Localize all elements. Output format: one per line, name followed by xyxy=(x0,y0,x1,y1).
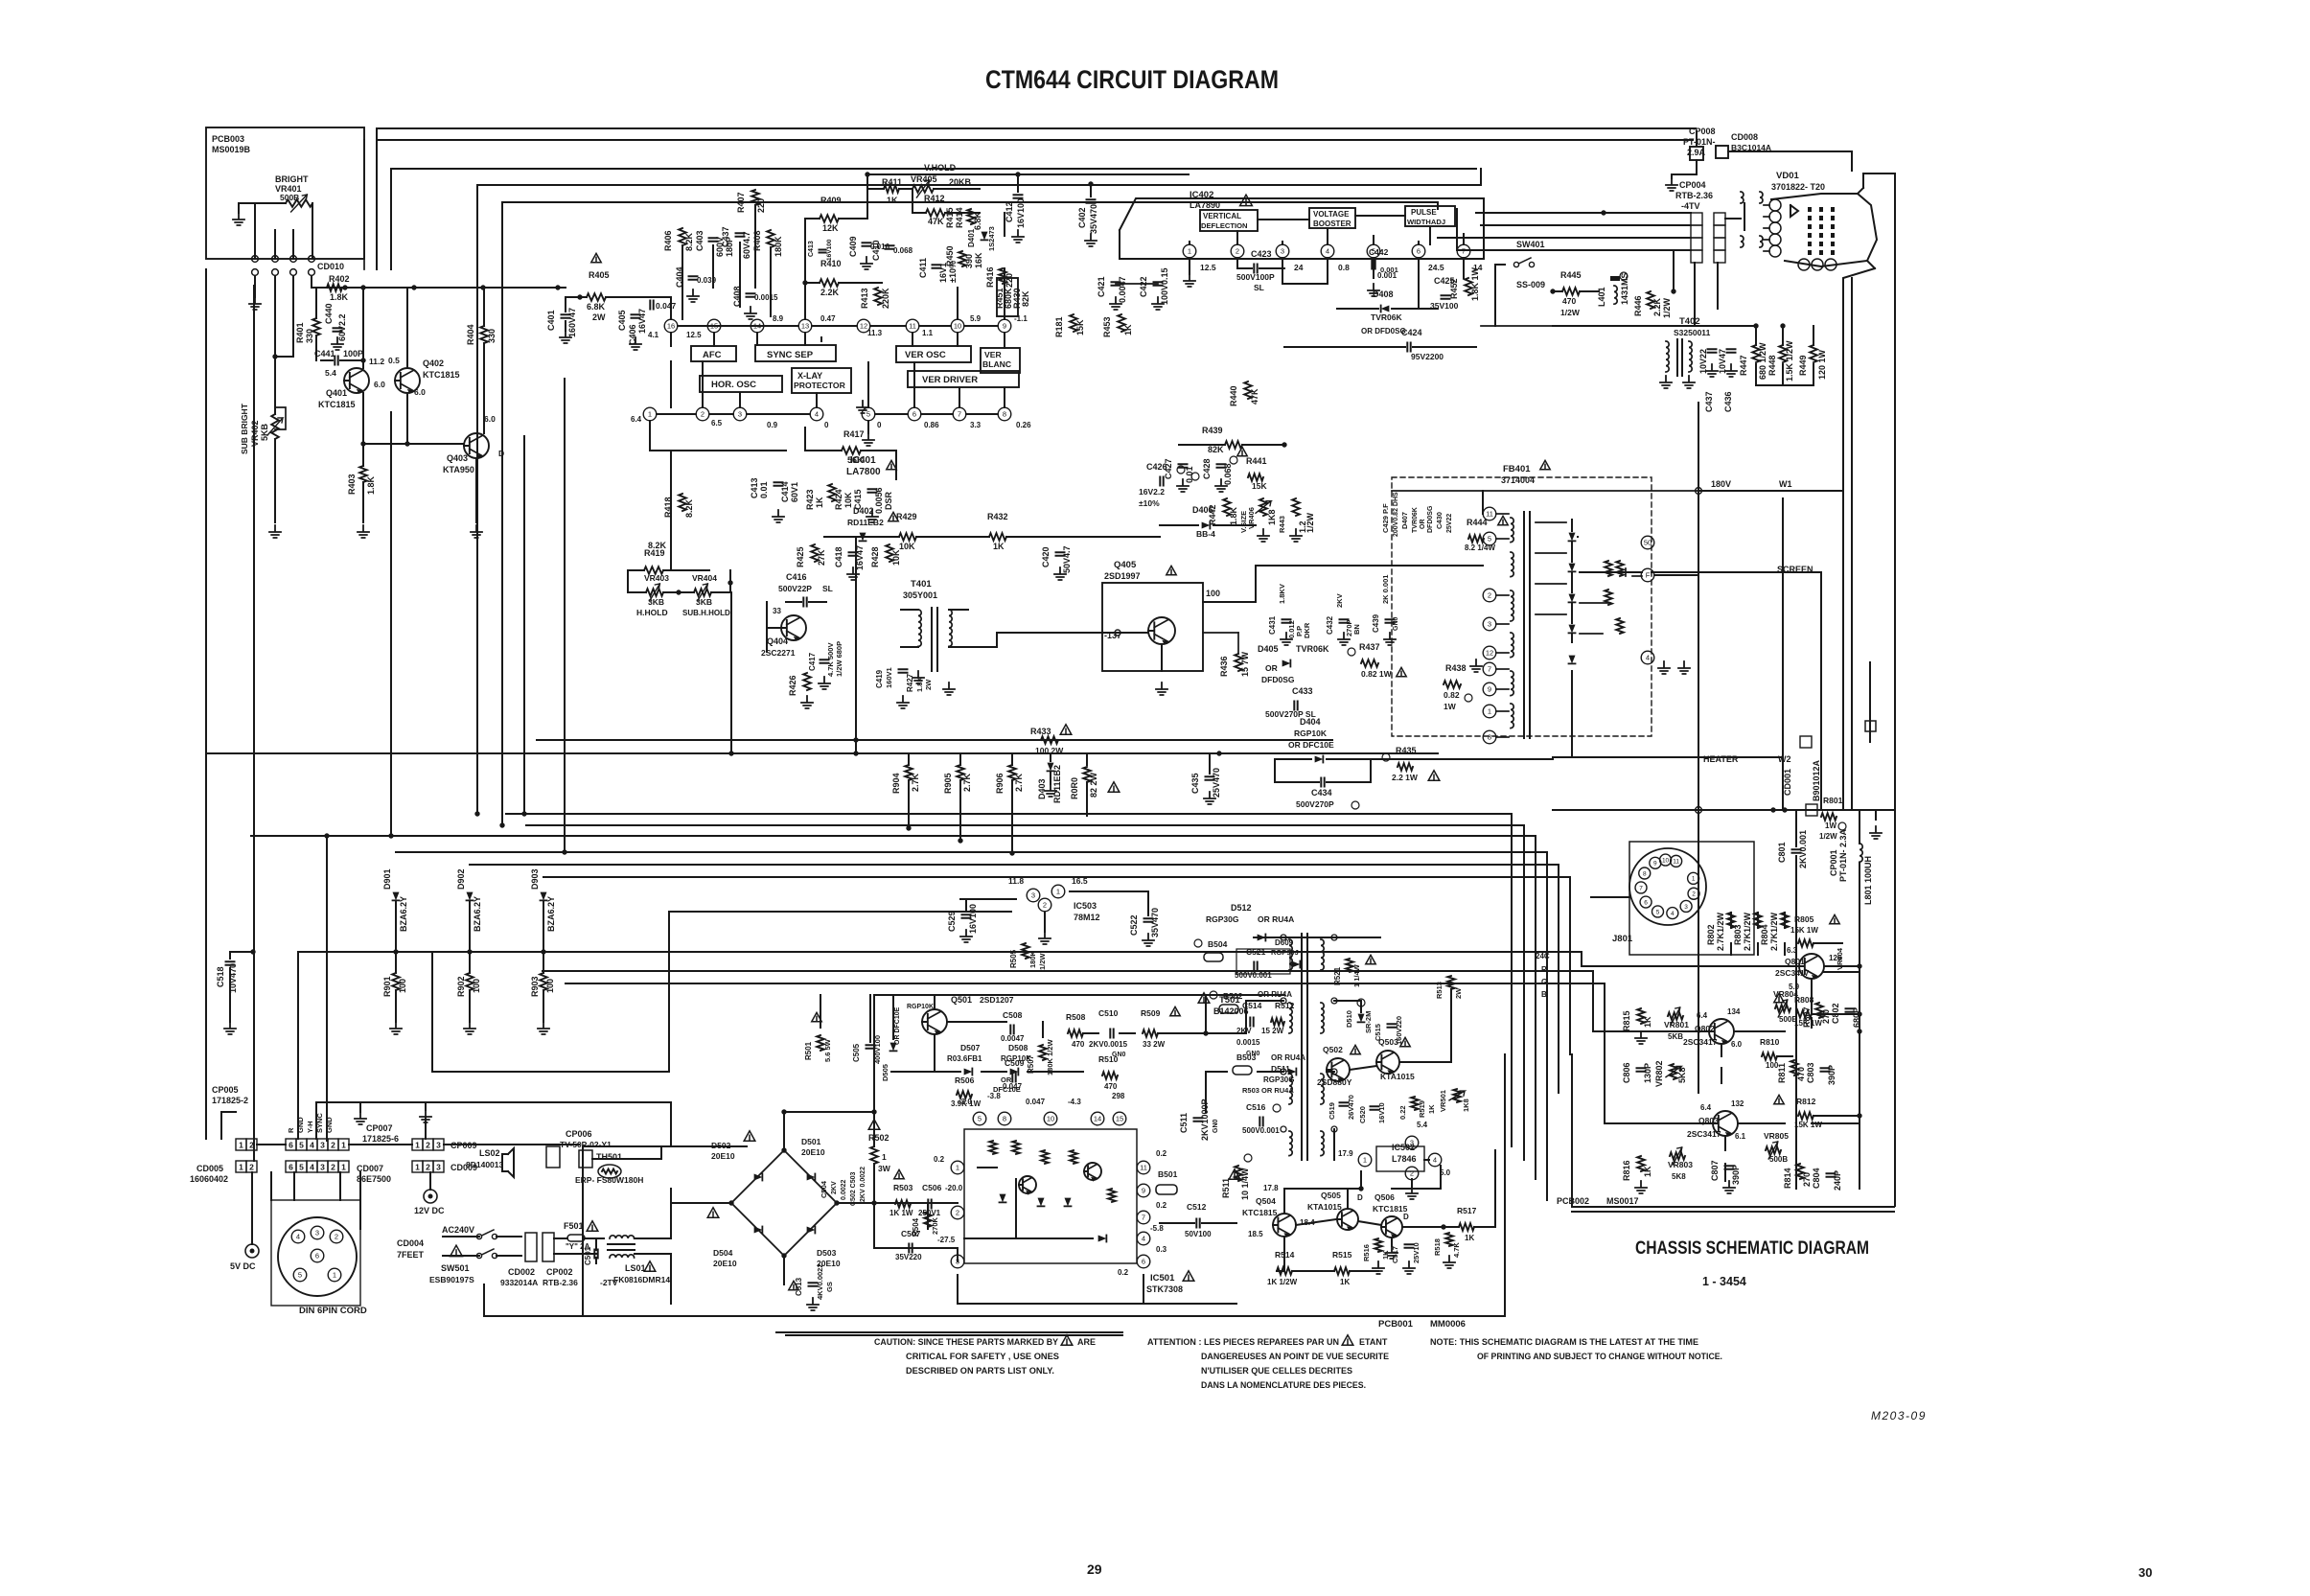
svg-text:10K: 10K xyxy=(899,542,915,551)
svg-text:4.1: 4.1 xyxy=(648,331,659,339)
svg-text:2: 2 xyxy=(1488,591,1491,600)
svg-text:C418: C418 xyxy=(834,546,843,567)
svg-text:L401: L401 xyxy=(1597,287,1606,307)
svg-text:56K: 56K xyxy=(847,455,864,465)
svg-text:2.2K: 2.2K xyxy=(820,288,840,297)
svg-text:R503: R503 xyxy=(893,1183,913,1192)
svg-text:0.01: 0.01 xyxy=(759,481,769,498)
svg-text:3: 3 xyxy=(436,1140,441,1149)
capacitor C435 xyxy=(1190,753,1221,804)
svg-text:C801: C801 xyxy=(1777,842,1787,863)
svg-text:9: 9 xyxy=(1488,685,1491,694)
svg-text:18.5: 18.5 xyxy=(1248,1230,1263,1238)
svg-text:1K: 1K xyxy=(1643,1166,1652,1177)
svg-text:6.8K: 6.8K xyxy=(587,302,606,312)
wire cp004 feeds xyxy=(1438,209,1691,250)
svg-text:3: 3 xyxy=(320,1140,325,1149)
resistor R815 xyxy=(1622,1008,1652,1044)
wire video R line xyxy=(474,952,1799,966)
svg-text:R814: R814 xyxy=(1783,1168,1792,1189)
svg-text:0.2: 0.2 xyxy=(1118,1268,1129,1277)
svg-text:2: 2 xyxy=(426,1140,430,1149)
svg-text:2SD1207: 2SD1207 xyxy=(980,995,1014,1005)
svg-text:R443: R443 xyxy=(1278,516,1286,533)
svg-text:R519: R519 xyxy=(1418,1100,1426,1118)
svg-text:R441: R441 xyxy=(1246,456,1267,466)
capacitor C417 xyxy=(808,641,843,677)
switch SW501a xyxy=(476,1230,497,1239)
resistor R453 xyxy=(1102,314,1133,337)
svg-text:RGP10K: RGP10K xyxy=(1294,729,1328,738)
svg-text:0.47: 0.47 xyxy=(820,314,836,323)
svg-text:180K: 180K xyxy=(774,236,783,257)
svg-text:2K 0.001: 2K 0.001 xyxy=(1381,575,1390,604)
svg-text:BLANC: BLANC xyxy=(982,359,1011,369)
resistor R437 xyxy=(1348,642,1406,679)
svg-text:C439: C439 xyxy=(1372,613,1380,633)
svg-text:Q803: Q803 xyxy=(1698,1116,1719,1125)
svg-text:16V10: 16V10 xyxy=(1377,1102,1386,1123)
svg-text:D402: D402 xyxy=(853,506,874,516)
resistor R521 xyxy=(1333,955,1375,1006)
svg-text:OR DFC10E: OR DFC10E xyxy=(894,1006,901,1045)
svg-text:1.8K: 1.8K xyxy=(366,475,376,495)
svg-text:R401: R401 xyxy=(295,322,305,343)
svg-text:6.4: 6.4 xyxy=(631,415,642,424)
svg-text:500V270P: 500V270P xyxy=(1296,799,1334,809)
line filter L501 xyxy=(608,1236,670,1284)
wire q504 chain xyxy=(1277,1189,1459,1271)
svg-text:2: 2 xyxy=(1410,1169,1414,1178)
svg-text:C403: C403 xyxy=(695,230,705,251)
svg-text:Q506: Q506 xyxy=(1374,1192,1395,1202)
svg-text:R435: R435 xyxy=(1396,746,1417,755)
svg-text:10K: 10K xyxy=(891,549,901,566)
svg-text:8.2K: 8.2K xyxy=(684,232,694,251)
board PCB003 outline xyxy=(206,127,364,259)
svg-text:6.0: 6.0 xyxy=(374,380,385,389)
resistor R511 xyxy=(1221,1154,1252,1200)
resistor R442 VR406 R443 xyxy=(1208,498,1315,542)
coil L401 xyxy=(1597,272,1629,307)
label IC401 LA7800 xyxy=(846,455,896,477)
svg-text:D404: D404 xyxy=(1300,717,1321,727)
title CTM644 CIRCUIT DIAGRAM xyxy=(985,65,1279,94)
label CD005 xyxy=(190,1164,228,1184)
svg-text:T401: T401 xyxy=(911,579,932,590)
capacitor C801 xyxy=(1777,810,1808,882)
svg-text:STK7308: STK7308 xyxy=(1146,1284,1183,1294)
svg-text:50V4.7: 50V4.7 xyxy=(1062,545,1072,573)
resistor R441 xyxy=(1237,447,1268,491)
svg-text:SUB.H.HOLD: SUB.H.HOLD xyxy=(682,609,730,617)
wire video G line xyxy=(543,971,1709,1031)
svg-text:R804: R804 xyxy=(1760,924,1769,945)
svg-text:TH501: TH501 xyxy=(596,1152,622,1162)
svg-text:17.8: 17.8 xyxy=(1263,1184,1279,1192)
svg-text:1.8K: 1.8K xyxy=(330,292,349,302)
svg-text:RTB-2.36: RTB-2.36 xyxy=(1675,191,1713,200)
svg-text:CD004: CD004 xyxy=(397,1238,424,1248)
svg-text:C414: C414 xyxy=(780,481,790,502)
wire ic401 pins9-10 up xyxy=(958,213,1005,319)
wire vr403 row xyxy=(628,570,733,595)
capacitor C411 xyxy=(918,258,958,283)
svg-text:1: 1 xyxy=(1488,707,1491,716)
svg-text:330: 330 xyxy=(487,329,497,343)
resistor R425 xyxy=(796,544,826,567)
wire pcb001 borders xyxy=(484,1054,1505,1335)
svg-text:95V2200: 95V2200 xyxy=(1411,352,1444,361)
svg-text:DFD0SG: DFD0SG xyxy=(1427,505,1434,533)
resistor R810 xyxy=(1760,1037,1780,1070)
svg-text:180K 1/2W: 180K 1/2W xyxy=(1046,1039,1054,1076)
svg-text:R406: R406 xyxy=(663,230,673,251)
svg-text:R810: R810 xyxy=(1760,1037,1780,1047)
wire screen bus xyxy=(1652,572,1821,810)
transistor Q506 xyxy=(1373,1192,1409,1238)
wire t402 area xyxy=(1553,323,1813,385)
resistor R503 xyxy=(889,1169,913,1217)
svg-text:R515: R515 xyxy=(1332,1250,1352,1260)
svg-text:D508: D508 xyxy=(1008,1043,1028,1052)
signal labels vertical xyxy=(287,1113,334,1133)
svg-text:C506: C506 xyxy=(922,1183,942,1192)
svg-text:PULSE: PULSE xyxy=(1411,208,1437,217)
transformer T401 xyxy=(901,579,997,671)
svg-text:C429 P.F: C429 P.F xyxy=(1381,503,1390,533)
svg-text:298: 298 xyxy=(1112,1092,1125,1100)
svg-text:-3.8: -3.8 xyxy=(987,1092,1001,1100)
svg-text:2.7K1/2W: 2.7K1/2W xyxy=(1716,912,1725,951)
svg-text:KTC1815: KTC1815 xyxy=(318,400,356,409)
svg-text:1K: 1K xyxy=(1643,1016,1652,1028)
svg-text:CP006: CP006 xyxy=(566,1129,592,1139)
svg-text:270: 270 xyxy=(1821,1009,1831,1024)
svg-text:4.7K: 4.7K xyxy=(1452,1242,1461,1258)
svg-text:1: 1 xyxy=(239,1162,243,1171)
svg-text:-4TV: -4TV xyxy=(1681,201,1700,211)
svg-text:270K: 270K xyxy=(931,1216,939,1235)
labels 24C R G B xyxy=(1536,952,1550,999)
flyback pin stubs xyxy=(1496,514,1509,737)
svg-text:R407: R407 xyxy=(736,192,746,213)
svg-text:IC501: IC501 xyxy=(1150,1273,1175,1284)
svg-text:VR501: VR501 xyxy=(1439,1090,1447,1112)
svg-text:L7846: L7846 xyxy=(1392,1154,1417,1164)
svg-text:D507: D507 xyxy=(960,1043,981,1052)
svg-text:1: 1 xyxy=(415,1140,420,1149)
svg-text:4.7K 500V: 4.7K 500V xyxy=(826,643,835,677)
caps C806 C808 VR802 xyxy=(1622,1060,1687,1087)
svg-text:H.HOLD: H.HOLD xyxy=(636,608,668,617)
svg-text:R449: R449 xyxy=(1798,355,1808,376)
svg-text:C419: C419 xyxy=(875,669,884,688)
svg-text:R445: R445 xyxy=(1560,270,1582,280)
label CP005 xyxy=(212,1085,248,1105)
wire left mid vertical x589 xyxy=(562,379,566,855)
svg-text:1/2W: 1/2W xyxy=(1662,297,1672,318)
svg-text:27K: 27K xyxy=(817,549,826,566)
page number 29 xyxy=(1087,1561,1102,1577)
svg-text:6.0: 6.0 xyxy=(484,414,496,424)
svg-text:50V100: 50V100 xyxy=(1185,1230,1212,1238)
wire bus F xyxy=(543,877,1570,1054)
svg-text:Q802: Q802 xyxy=(1695,1024,1715,1033)
svg-text:R901: R901 xyxy=(382,976,392,997)
svg-text:2SD1997: 2SD1997 xyxy=(1104,571,1141,581)
svg-text:500V100P: 500V100P xyxy=(1236,272,1275,282)
wire q405 collector to flyback xyxy=(1256,566,1483,602)
svg-text:1.5K 1/2W: 1.5K 1/2W xyxy=(1785,340,1794,382)
svg-text:D501: D501 xyxy=(801,1137,821,1146)
drawing number 1-3454 xyxy=(1702,1275,1746,1288)
svg-text:D405: D405 xyxy=(1258,644,1279,654)
flyback secondary resistors xyxy=(1605,561,1624,634)
svg-text:10: 10 xyxy=(1662,857,1670,864)
resistors R451 R430 xyxy=(995,278,1030,316)
svg-text:15K: 15K xyxy=(1075,319,1085,335)
svg-text:171825-2: 171825-2 xyxy=(212,1096,248,1105)
svg-text:82K: 82K xyxy=(1208,445,1224,454)
label PCB002 xyxy=(1557,1196,1639,1206)
svg-text:0.3: 0.3 xyxy=(1156,1245,1167,1254)
svg-text:C417: C417 xyxy=(808,652,817,671)
wire right vertical outer xyxy=(1863,173,1895,1206)
svg-text:10: 10 xyxy=(954,322,961,331)
svg-text:C505: C505 xyxy=(852,1043,861,1062)
transistor Q405 box xyxy=(997,560,1256,695)
capacitor C437 R408 xyxy=(721,226,783,259)
svg-text:10V22: 10V22 xyxy=(1698,349,1708,374)
svg-text:5: 5 xyxy=(298,1271,302,1280)
svg-text:R437: R437 xyxy=(1359,642,1380,652)
capacitor C413 xyxy=(808,239,833,261)
capacitor C426 xyxy=(1139,462,1185,508)
svg-text:6: 6 xyxy=(1644,899,1648,906)
capacitor C424 xyxy=(1284,328,1476,361)
wire right vertical crt-right xyxy=(1851,278,1853,810)
ground PCB003 xyxy=(233,203,244,225)
svg-text:0.82: 0.82 xyxy=(1444,690,1460,700)
svg-text:Q403: Q403 xyxy=(447,453,468,463)
svg-text:CTM644 CIRCUIT DIAGRAM: CTM644 CIRCUIT DIAGRAM xyxy=(985,65,1279,94)
svg-text:D408: D408 xyxy=(1373,289,1394,299)
svg-text:15K 1W: 15K 1W xyxy=(1794,1019,1822,1028)
svg-text:5.9: 5.9 xyxy=(970,314,982,323)
svg-text:R801: R801 xyxy=(1823,796,1843,805)
diode D408 xyxy=(1337,289,1438,335)
svg-text:1.8K: 1.8K xyxy=(1229,506,1238,525)
svg-text:C423: C423 xyxy=(1251,249,1272,259)
svg-text:C422: C422 xyxy=(1139,276,1148,297)
jack 5V DC xyxy=(230,1172,259,1271)
svg-text:1: 1 xyxy=(341,1140,346,1149)
ground cp009 xyxy=(420,1102,431,1139)
svg-text:6.4: 6.4 xyxy=(1700,1103,1712,1112)
resistor R816 VR803 C807 xyxy=(1622,1147,1741,1193)
svg-text:C413: C413 xyxy=(808,241,815,257)
svg-text:C433: C433 xyxy=(1292,686,1313,696)
wire flyback to screen xyxy=(1580,572,1698,575)
svg-text:0.0047: 0.0047 xyxy=(1001,1034,1025,1043)
svg-text:R906: R906 xyxy=(995,773,1005,794)
svg-text:2.7K1/2W: 2.7K1/2W xyxy=(1769,912,1779,951)
svg-text:470: 470 xyxy=(1104,1082,1118,1091)
pot VR501 xyxy=(1439,1089,1470,1112)
svg-text:SCREEN: SCREEN xyxy=(1777,565,1813,574)
svg-text:Q404: Q404 xyxy=(767,636,788,646)
svg-text:1: 1 xyxy=(341,1162,346,1171)
svg-text:2: 2 xyxy=(701,410,705,419)
resistor R502 xyxy=(868,1112,891,1203)
svg-text:3.3: 3.3 xyxy=(970,421,982,429)
capacitor C515 xyxy=(1374,1016,1403,1045)
svg-text:CP008: CP008 xyxy=(1689,127,1716,136)
svg-text:390P: 390P xyxy=(1731,1165,1741,1185)
svg-text:R414: R414 xyxy=(955,207,964,228)
svg-text:1: 1 xyxy=(1363,1156,1367,1165)
svg-text:R446: R446 xyxy=(1633,295,1643,316)
svg-text:10: 10 xyxy=(1047,1115,1054,1123)
label BRIGHT VR401 xyxy=(275,174,309,202)
capacitor C513 xyxy=(789,1263,834,1310)
svg-text:C416: C416 xyxy=(786,572,807,582)
wire d90x feed xyxy=(298,952,543,1139)
svg-text:C501: C501 xyxy=(584,1246,592,1265)
wire bus B xyxy=(526,825,1524,1160)
resistor R504 xyxy=(912,1212,939,1237)
svg-text:CP005: CP005 xyxy=(212,1085,239,1095)
capacitor C408 xyxy=(732,286,778,319)
jack 12V DC xyxy=(414,1172,445,1215)
svg-text:4: 4 xyxy=(1646,654,1650,662)
ballast B503 xyxy=(1233,1052,1305,1075)
capacitor C432 xyxy=(1326,593,1361,645)
svg-text:220: 220 xyxy=(756,198,766,213)
svg-text:C412: C412 xyxy=(1005,201,1014,222)
pot VR801 xyxy=(1664,1007,1689,1041)
IC501 inner parts xyxy=(964,1141,1116,1242)
svg-text:VR402: VR402 xyxy=(250,420,260,447)
svg-text:0.86: 0.86 xyxy=(924,421,939,429)
wire snubber rail xyxy=(871,1200,958,1261)
svg-text:11: 11 xyxy=(1140,1164,1147,1172)
svg-text:-4.3: -4.3 xyxy=(1068,1098,1081,1106)
svg-text:33: 33 xyxy=(773,607,781,615)
svg-text:2: 2 xyxy=(249,1162,254,1171)
wire flyback heater xyxy=(1572,671,1698,757)
switch SW401 xyxy=(1495,240,1545,289)
diode D510 OR RU4A xyxy=(1236,990,1295,1057)
svg-text:DESCRIBED ON PARTS LIST ONLY.: DESCRIBED ON PARTS LIST ONLY. xyxy=(906,1366,1054,1376)
wire nested top line 2 xyxy=(391,169,1476,269)
svg-text:0.0022: 0.0022 xyxy=(841,1179,847,1200)
svg-text:D901: D901 xyxy=(382,868,392,890)
IC402 pin voltages xyxy=(1200,263,1483,274)
wire c510 rail to t501 xyxy=(1203,1030,1246,1035)
svg-text:0.01: 0.01 xyxy=(1185,466,1194,483)
svg-text:D: D xyxy=(498,449,504,458)
svg-text:5.6 5W: 5.6 5W xyxy=(823,1038,832,1062)
svg-text:4: 4 xyxy=(310,1140,314,1149)
svg-text:180K: 180K xyxy=(1028,950,1037,968)
svg-text:2KV: 2KV xyxy=(1335,593,1344,608)
wire t501 secondary rails xyxy=(1256,937,1451,1160)
transistor Q801 xyxy=(1775,946,1844,991)
svg-text:TVR06K: TVR06K xyxy=(1296,644,1329,654)
svg-text:8D140013: 8D140013 xyxy=(466,1160,504,1169)
resistor R517 xyxy=(1457,1206,1477,1242)
flyback pin 50 xyxy=(1641,536,1654,549)
svg-text:4: 4 xyxy=(1433,1156,1437,1165)
svg-text:1K: 1K xyxy=(1427,1104,1436,1114)
svg-text:VER OSC: VER OSC xyxy=(905,350,946,360)
connector CD002 xyxy=(500,1233,538,1287)
svg-text:1/2W: 1/2W xyxy=(1560,308,1581,317)
svg-text:CD005: CD005 xyxy=(196,1164,223,1173)
svg-text:1K 1W: 1K 1W xyxy=(889,1209,913,1217)
svg-text:86E7500: 86E7500 xyxy=(357,1174,391,1184)
svg-text:PT-01N- 2.3A: PT-01N- 2.3A xyxy=(1838,828,1848,882)
strip CD005 xyxy=(236,1161,257,1172)
wire right trunk 1 xyxy=(1696,131,1698,146)
svg-text:12.5: 12.5 xyxy=(1200,263,1216,272)
wire afc pins xyxy=(671,333,1005,407)
resistor R429 xyxy=(896,512,917,551)
svg-text:R812: R812 xyxy=(1796,1097,1816,1106)
capacitor C518 xyxy=(216,949,256,1034)
svg-text:BRIGHT: BRIGHT xyxy=(275,174,309,184)
svg-text:OR DFC10E: OR DFC10E xyxy=(1288,740,1334,750)
svg-text:3KB: 3KB xyxy=(696,597,712,607)
svg-text:VERTICAL: VERTICAL xyxy=(1203,212,1241,220)
capacitor C421 xyxy=(1097,276,1127,310)
svg-text:X-LAY: X-LAY xyxy=(797,371,822,381)
svg-text:2.2K: 2.2K xyxy=(1652,297,1662,316)
title CHASSIS SCHEMATIC DIAGRAM xyxy=(1635,1238,1869,1259)
IC401 pin voltages bottom xyxy=(631,415,1031,429)
svg-text:CAUTION: SINCE THESE PARTS MAR: CAUTION: SINCE THESE PARTS MARKED BY xyxy=(874,1337,1058,1347)
label CD010 xyxy=(317,262,344,271)
svg-text:FB401: FB401 xyxy=(1503,464,1531,474)
flyback pin 4 xyxy=(1641,651,1654,664)
svg-text:11: 11 xyxy=(909,322,916,331)
svg-text:-27.5: -27.5 xyxy=(937,1236,956,1244)
IC501 inner box xyxy=(964,1129,1137,1263)
svg-text:R415: R415 xyxy=(945,207,955,228)
ballast B502 xyxy=(1210,991,1243,1013)
svg-text:6.8K: 6.8K xyxy=(973,211,982,230)
svg-text:C401: C401 xyxy=(546,310,556,331)
svg-text:10V47: 10V47 xyxy=(1718,349,1727,374)
svg-text:OR RU4A: OR RU4A xyxy=(1258,914,1294,924)
resistor R407 xyxy=(736,190,766,213)
box VER BLANC xyxy=(981,348,1020,373)
svg-text:SYNC SEP: SYNC SEP xyxy=(767,350,814,360)
svg-text:5KB: 5KB xyxy=(260,423,269,441)
svg-text:C511: C511 xyxy=(1179,1113,1189,1133)
svg-text:1K: 1K xyxy=(815,497,824,508)
svg-text:3: 3 xyxy=(1684,904,1688,911)
svg-text:C520: C520 xyxy=(1358,1106,1367,1123)
ground flyback a xyxy=(1658,661,1690,674)
svg-text:VD01: VD01 xyxy=(1776,171,1799,181)
page number 30 xyxy=(2138,1565,2152,1580)
label IC402 LA7890 xyxy=(1190,190,1252,210)
coil L801 xyxy=(1860,810,1882,905)
svg-text:1: 1 xyxy=(882,1152,887,1162)
